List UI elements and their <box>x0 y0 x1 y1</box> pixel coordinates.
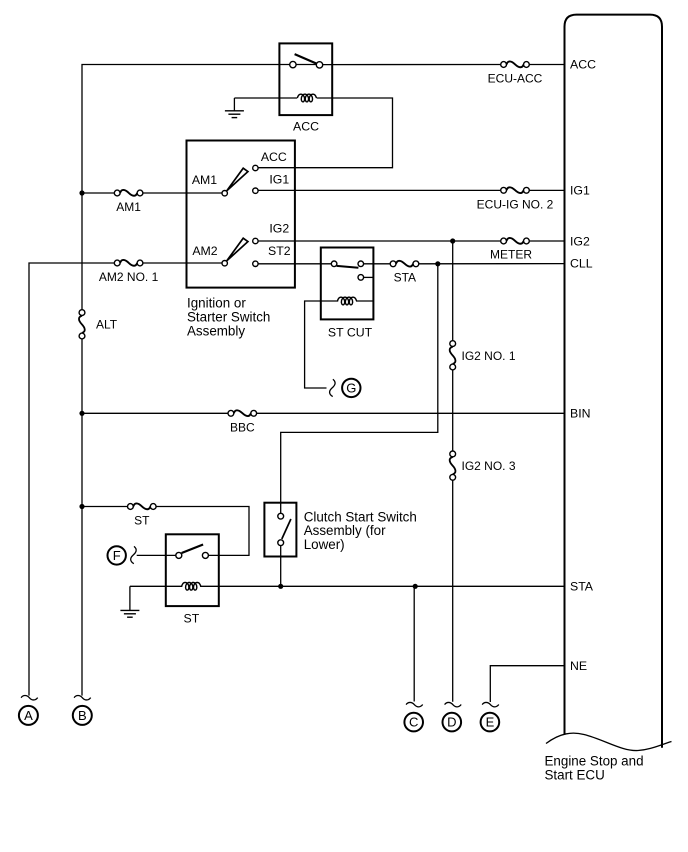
svg-text:BBC: BBC <box>230 420 255 434</box>
D line: IG2 junction down through fuses to connector D <box>452 241 454 702</box>
ST CUT NC contact with stub <box>358 275 364 281</box>
svg-text:ALT: ALT <box>96 318 118 332</box>
ST relay coil row / STA row to ECU <box>130 585 565 587</box>
fuse ALT on B rail <box>79 310 85 339</box>
clutch contacts <box>278 513 284 519</box>
svg-text:Starter Switch: Starter Switch <box>187 310 270 325</box>
svg-text:ACC: ACC <box>261 150 287 164</box>
connector A <box>21 696 38 700</box>
ST relay contacts <box>176 552 182 558</box>
fuse METER <box>501 238 530 244</box>
wire F to ST relay left contact <box>137 554 176 556</box>
svg-text:ECU-ACC: ECU-ACC <box>488 72 543 86</box>
fuse IG2 NO. 1 <box>450 341 456 370</box>
svg-text:IG1: IG1 <box>269 173 289 187</box>
svg-text:ACC: ACC <box>570 57 596 71</box>
connector F squiggle and circle <box>108 546 126 564</box>
ignition switch AM1 pivot <box>222 191 227 196</box>
junction dot C-line/STA <box>413 584 418 589</box>
wire: ground to coil, coil to right corner down to ignition ACC contact <box>234 98 392 168</box>
svg-text:IG2 NO. 1: IG2 NO. 1 <box>462 349 516 363</box>
svg-text:Assembly: Assembly <box>187 324 245 339</box>
svg-text:C: C <box>409 715 418 730</box>
fuse ST <box>128 503 157 509</box>
junction dot AM1/B-rail <box>79 190 84 195</box>
svg-text:G: G <box>346 381 356 396</box>
connector B <box>74 696 91 700</box>
ground for ACC relay coil <box>233 98 235 111</box>
connector D <box>445 702 462 706</box>
wire fuse AM2 to pivot <box>142 262 222 264</box>
svg-text:IG2: IG2 <box>269 222 289 236</box>
clutch blade <box>282 519 291 539</box>
C line down to connector C <box>413 586 415 701</box>
svg-text:ACC: ACC <box>293 120 319 134</box>
relay ST CUT box <box>321 248 374 320</box>
svg-text:E: E <box>486 715 495 730</box>
fuse BBC <box>228 410 257 416</box>
svg-text:IG2: IG2 <box>570 234 590 248</box>
svg-text:B: B <box>78 708 87 723</box>
svg-text:ECU-IG NO. 2: ECU-IG NO. 2 <box>477 198 554 212</box>
ECU torn-bottom wave <box>546 733 672 750</box>
fuse AM2 NO. 1 <box>114 260 143 266</box>
svg-text:METER: METER <box>490 248 532 262</box>
relay ST box <box>166 534 219 606</box>
fuse STA <box>390 261 419 267</box>
Ignition or Starter Switch Assembly box <box>187 141 295 288</box>
wire: B rail down to connector B <box>81 193 83 696</box>
fuse ST row: B rail to fuse to corner down to ST relay <box>82 507 249 556</box>
svg-text:D: D <box>447 715 456 730</box>
svg-text:A: A <box>24 708 33 723</box>
fuse ECU-ACC <box>501 61 530 67</box>
fuse AM1 <box>82 192 115 194</box>
ground for ST relay coil <box>129 586 131 610</box>
ignition AM2 pivot <box>222 261 227 266</box>
NE wire from ECU to corner down to connector E <box>490 666 564 702</box>
svg-text:F: F <box>113 548 121 563</box>
svg-text:NE: NE <box>570 659 587 673</box>
blade AM2 <box>227 238 248 261</box>
connector E <box>482 702 499 706</box>
relay ACC box <box>279 43 332 115</box>
junction dot ST/B-rail <box>79 504 84 509</box>
clutch lower wire to STA row <box>280 546 282 587</box>
svg-text:CLL: CLL <box>570 257 593 271</box>
ignition ST2 contact + wire to ST CUT <box>258 263 331 265</box>
svg-text:ST: ST <box>134 514 150 528</box>
wire fuse AM1 to pivot <box>142 192 222 194</box>
blade AM1 (key shape) <box>227 168 248 191</box>
svg-text:Lower): Lower) <box>304 537 345 552</box>
wire: B rail top corner to ACC relay <box>82 65 290 194</box>
wire: A rail from AM2 line to connector A <box>29 263 115 696</box>
svg-text:IG1: IG1 <box>570 184 590 198</box>
svg-text:IG2 NO. 3: IG2 NO. 3 <box>462 459 516 473</box>
svg-text:STA: STA <box>570 580 594 594</box>
ST CUT contacts <box>331 261 337 267</box>
connector C <box>406 702 423 706</box>
svg-text:Start ECU: Start ECU <box>545 768 605 783</box>
svg-text:Ignition or: Ignition or <box>187 296 246 311</box>
fuse ECU-IG NO. 2 <box>501 187 530 193</box>
svg-text:ST2: ST2 <box>268 244 291 258</box>
ST CUT coil + leads to G connector <box>305 301 374 388</box>
svg-text:AM1: AM1 <box>116 200 141 214</box>
coil ST relay <box>182 583 201 591</box>
connector G squiggle <box>330 379 336 396</box>
ST CUT blade <box>337 266 359 268</box>
junction dot clutch/STA <box>278 584 283 589</box>
ST relay blade <box>182 545 204 554</box>
fuse IG2 NO. 3 <box>450 451 456 480</box>
ignition ACC contact <box>253 165 258 170</box>
contact circles ACC relay <box>290 61 296 67</box>
connector G circle <box>342 379 360 397</box>
clutch start switch box <box>264 503 296 557</box>
wire ST CUT right contact to STA fuse to CLL junction to ECU CLL <box>364 263 565 265</box>
svg-text:AM1: AM1 <box>192 173 217 187</box>
coil ACC relay <box>297 94 316 102</box>
ignition IG1 contact + wire to ECU IG1 <box>258 189 564 191</box>
svg-text:ST: ST <box>184 611 200 625</box>
junction dot IG2/D-line <box>450 238 455 243</box>
svg-text:AM2: AM2 <box>192 244 217 258</box>
svg-text:BIN: BIN <box>570 407 591 421</box>
switch blade ACC relay <box>295 54 317 63</box>
ECU body: Engine Stop and Start ECU <box>565 15 663 748</box>
svg-text:Engine Stop and: Engine Stop and <box>545 754 644 769</box>
svg-text:ST CUT: ST CUT <box>328 326 373 340</box>
svg-text:STA: STA <box>394 271 416 285</box>
svg-text:AM2 NO. 1: AM2 NO. 1 <box>99 270 159 284</box>
junction dot CLL/clutch-line <box>435 261 440 266</box>
wire clutch link: CLL junction down, left, down to clutch switch <box>281 264 438 514</box>
ignition IG2 contact + wire to ECU IG2 <box>258 240 564 242</box>
wire BIN row: B rail to BBC fuse to ECU BIN <box>82 412 565 414</box>
wire: ACC relay switch row to ECU-ACC fuse to ECU ACC pin <box>296 64 564 66</box>
junction dot BBC/B-rail <box>79 411 84 416</box>
